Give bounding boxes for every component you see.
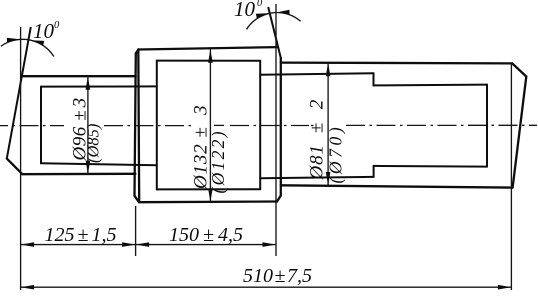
forging middle bottom-right corner chamfer: [277, 196, 281, 202]
forging D96 section top line: [22, 75, 135, 77]
dimension line D132: [209, 49, 211, 202]
machined end step top line: [374, 84, 488, 87]
extension line at 150 right boundary: [275, 4, 277, 256]
forging middle section left edge: [137, 50, 140, 203]
machined D122 step right face: [259, 61, 261, 190]
dimension line 510: [21, 286, 512, 288]
svg-text:150±4,5: 150±4,5: [169, 224, 243, 246]
extension line right end: [510, 64, 512, 291]
forging right end face bottom slant: [513, 77, 527, 188]
forging middle right shoulder slant (10 deg draft): [268, 7, 281, 58]
forging left end face top slant (10 deg draft): [7, 27, 31, 159]
angle dimension arc middle 10deg: [247, 12, 301, 29]
svg-text:(Ø85): (Ø85): [84, 124, 103, 163]
machined D70 top line: [260, 73, 373, 75]
forging D132 section top line: [138, 47, 277, 49]
machined end step bottom line: [374, 165, 487, 168]
forging middle bottom-left corner chamfer: [135, 196, 140, 202]
forging D81 section bottom line: [281, 185, 513, 187]
extension line left end: [20, 27, 22, 290]
forging right end face top slant: [512, 63, 526, 76]
forging D81 section top line: [281, 61, 512, 64]
centerline (axis, dash-dot): [0, 124, 537, 126]
machined part left end face (D85): [40, 87, 42, 164]
forging D132 section bottom line: [139, 200, 277, 203]
machined step shoulder top: [373, 73, 375, 85]
svg-text:(Ø70): (Ø70): [326, 124, 346, 184]
machined D85 top line: [41, 85, 157, 87]
extension line at 125/150 boundary: [135, 206, 137, 256]
dimension line D96: [87, 76, 89, 174]
dimension line 125: [21, 244, 136, 246]
svg-text:125±1,5: 125±1,5: [45, 224, 117, 246]
angle dimension arc left 10deg: [1, 39, 54, 56]
machined D122 top line: [157, 60, 260, 62]
forging D96 section bottom line: [22, 173, 135, 176]
machined D70 bottom line: [260, 177, 373, 178]
forging left end face bottom slant: [7, 159, 23, 175]
svg-text:(Ø122): (Ø122): [208, 129, 228, 193]
dimension line 150: [136, 244, 276, 246]
dimension line D81: [327, 63, 329, 186]
forging middle shoulder left draft line: [135, 54, 136, 196]
forging middle section right edge: [280, 58, 282, 196]
machined part right end face: [486, 85, 488, 167]
svg-text:510±7,5: 510±7,5: [243, 265, 312, 287]
forging middle top-left corner chamfer: [136, 50, 139, 54]
machined step shoulder bottom: [373, 166, 375, 177]
machined D85 bottom line: [41, 163, 157, 165]
machined D122 bottom line: [157, 188, 260, 190]
machined D122 step left face: [156, 61, 158, 190]
